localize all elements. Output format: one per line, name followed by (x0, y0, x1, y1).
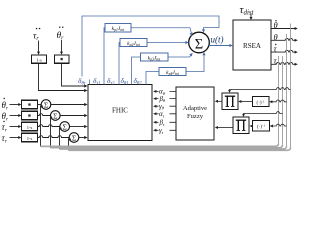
label alpha_tau (159, 110, 170, 118)
wire sum1 to FHIC (51, 103, 88, 106)
feedback bus bottom line 3 (60, 146, 287, 149)
wire box row3 to sum3 with hops (38, 125, 60, 127)
feedback riser to sum1 (41, 105, 44, 146)
feedback bus bottom line 4 (69, 148, 291, 151)
feedback bus bottom line 1 (41, 144, 279, 147)
sum junction 3 (60, 122, 70, 132)
sum junction 4 (69, 133, 79, 143)
label delta_tau1 (93, 76, 100, 86)
feedback bus bottom line 2 (51, 145, 283, 148)
wire RSEA output tau_dot with hops (271, 50, 298, 53)
inverse block 1 (253, 97, 270, 107)
wire theta_ddot_r into filter box (60, 40, 63, 55)
wire Adaptive Fuzzy alpha_tau to FHIC (153, 112, 176, 115)
feedback bus vertical 3 (286, 34, 288, 146)
wire delta_theta2 from FHIC top to gain box 4 (146, 72, 159, 85)
wire bus tap to inverse1 (269, 100, 286, 103)
wire RSEA output tau with hops (271, 63, 298, 66)
label gamma_theta (159, 103, 170, 111)
svg-text:Σ: Σ (53, 111, 57, 120)
scale box row2 * (22, 111, 38, 120)
block RSEA (233, 20, 271, 70)
product block Pi 2 (233, 117, 249, 134)
wire box row1 to sum1 (38, 104, 42, 106)
sum junction 1 (41, 100, 51, 110)
svg-text:Σ: Σ (195, 37, 203, 53)
label tau_ddot_r (33, 28, 40, 42)
label beta_theta (159, 95, 170, 103)
feedback riser to sum4 (69, 138, 72, 150)
wire inverse1 to Pi1 (238, 100, 252, 103)
label beta_tau (159, 119, 170, 127)
gain box k_p4 J_tot (159, 68, 186, 76)
feedback bus vertical 4 (290, 24, 292, 148)
svg-text:Σ: Σ (63, 122, 67, 131)
wire theta_r into box (10, 114, 22, 117)
feedback bus vertical 2 (282, 56, 284, 145)
svg-text:1-s: 1-s (27, 136, 33, 141)
wire u(t) sum to RSEA (209, 44, 233, 47)
svg-text:Fuzzy: Fuzzy (187, 113, 204, 120)
wire Adaptive Fuzzy beta_theta to FHIC (153, 97, 176, 100)
filter box 1-s (tau_ddot_r) (32, 55, 47, 63)
label alpha_theta (159, 88, 170, 96)
block FHIC (88, 85, 152, 141)
wire RSEA output theta_dot (271, 27, 298, 30)
wire RSEA output theta with hops (271, 39, 298, 42)
summing junction big (sum of k terms) (189, 32, 210, 53)
wire Adaptive Fuzzy gamma_theta to FHIC (153, 105, 176, 108)
label gamma_tau (159, 127, 170, 135)
label tau_r (2, 133, 8, 145)
svg-text:1-s: 1-s (27, 125, 33, 130)
wire Adaptive Fuzzy gamma_tau to FHIC (153, 129, 176, 132)
wire bus tap to Pi1 top (228, 88, 290, 93)
filter box * (theta_ddot_r) (55, 55, 70, 63)
label tau_dist (240, 4, 255, 17)
svg-text:RSEA: RSEA (243, 42, 261, 50)
wire theta_ddot_r filtered to FHIC (62, 63, 88, 87)
wire tau_dot_r into box (10, 125, 22, 128)
wire delta_tau1 from FHIC top to gain box 1 (104, 28, 105, 85)
wire sum4 to FHIC (79, 136, 88, 139)
svg-text:u(t): u(t) (211, 35, 224, 45)
wire inverse2 to Pi2 (249, 125, 252, 128)
label theta_dot output (274, 20, 278, 30)
product block Pi 1 (222, 93, 238, 110)
label tau output (274, 56, 278, 66)
label delta_theta1 (121, 76, 129, 86)
label delta_tau2 (107, 76, 115, 86)
wire gain box 2 output to sum (147, 41, 189, 44)
scale box row3 1-s (22, 122, 38, 131)
label tau_dot_r (2, 121, 8, 134)
wire sum3 to FHIC (70, 125, 88, 128)
wire sum2 to FHIC (60, 114, 87, 117)
wire tau_ddot_r into filter box (37, 41, 40, 55)
label u(t) (211, 35, 224, 45)
wire delta_theta_tau from FHIC top to sum (top rail) (82, 16, 219, 85)
label delta_theta2 (134, 76, 143, 86)
wire tau_ddot_r filtered to FHIC (39, 63, 88, 92)
svg-text:Σ: Σ (72, 133, 76, 142)
svg-text:Σ: Σ (44, 100, 48, 109)
sum junction 2 (51, 111, 61, 121)
wire bus tap to inverse2 (270, 124, 287, 127)
feedback riser to sum3 (59, 127, 62, 149)
label tau_dot output (274, 44, 278, 54)
inverse block 2 (253, 121, 270, 132)
gain box k_p1 J_tot (105, 24, 131, 33)
svg-text:1-s: 1-s (36, 58, 42, 63)
label theta_ddot_r (57, 27, 65, 42)
feedback riser to sum2 (50, 116, 53, 148)
wire theta_dot_r into box (10, 103, 22, 106)
svg-text:FHIC: FHIC (112, 107, 128, 115)
wire Adaptive Fuzzy alpha_theta to FHIC (153, 90, 176, 93)
scale box row4 1-s (22, 133, 38, 142)
gain box k_p2 J_tot (120, 39, 147, 47)
wire gain box 4 output to sum (186, 52, 206, 72)
wire Pi1 to Adaptive Fuzzy (215, 100, 222, 103)
wire gain box 3 output to sum (168, 53, 193, 57)
wire box row2 to sum2 with hop (38, 114, 51, 116)
wire delta_theta1 from FHIC top to gain box 3 (132, 57, 141, 85)
wire Pi2 to Adaptive Fuzzy (215, 126, 233, 129)
block Adaptive Fuzzy (176, 87, 214, 140)
label delta_theta_tau (78, 76, 86, 86)
wire delta_tau2 from FHIC top to gain box 2 (119, 43, 120, 85)
feedback bus vertical 1 (278, 56, 280, 144)
wire tau_r into box (10, 136, 22, 139)
wire Adaptive Fuzzy beta_tau to FHIC (153, 121, 176, 124)
wire bus tap to Pi2 top (242, 112, 282, 117)
label theta output (274, 32, 278, 42)
gain box k_p3 J_tot (141, 53, 169, 61)
scale box row1 * (22, 100, 38, 109)
wire box row4 to sum4 with hops (38, 136, 70, 138)
wire tau_dist into RSEA (250, 14, 253, 21)
svg-text:Adaptive: Adaptive (183, 105, 207, 112)
wire gain box 1 output to sum (131, 28, 193, 36)
label theta_dot_r (2, 98, 9, 112)
label theta_r (2, 111, 9, 123)
